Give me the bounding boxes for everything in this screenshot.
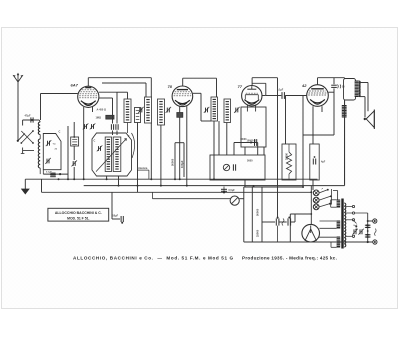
svg-text:77: 77 [238,84,243,89]
svg-text:8μF: 8μF [354,225,359,227]
svg-text:6A7: 6A7 [71,83,79,88]
svg-text:Antenna: Antenna [137,166,148,170]
svg-text:78: 78 [168,84,173,89]
svg-text:20000: 20000 [285,152,288,160]
svg-text:0,1μF: 0,1μF [277,89,284,92]
svg-text:Produzione 1935. - Media freq.: Produzione 1935. - Media freq.: 425 kc. [242,256,337,261]
svg-text:1MΩ: 1MΩ [96,117,101,120]
svg-text:4μF: 4μF [321,161,326,164]
svg-text:50μF: 50μF [113,215,119,218]
svg-text:ALLOCCHIO, BACCHINI e Co. —: ALLOCCHIO, BACCHINI e Co. — Mod. 51 F.M.… [73,255,234,260]
svg-text:47μF: 47μF [25,114,31,118]
svg-text:0,5μF: 0,5μF [229,189,236,192]
svg-text:MOD. 51 F 51.: MOD. 51 F 51. [67,216,89,220]
svg-text:25000: 25000 [256,229,260,237]
svg-text:50000: 50000 [256,208,260,216]
svg-text:C: C [59,130,61,134]
svg-text:0,1μF: 0,1μF [46,172,52,174]
svg-text:C: C [94,140,96,143]
svg-text:A-450 Ω: A-450 Ω [97,109,107,112]
svg-text:42: 42 [301,83,307,88]
svg-text:100μF: 100μF [180,160,184,168]
svg-text:50000: 50000 [171,158,175,166]
svg-text:Tm: Tm [53,144,56,146]
svg-text:10000: 10000 [240,139,247,141]
svg-text:ALLOCCHIO BACCHINI & C.: ALLOCCHIO BACCHINI & C. [55,211,102,215]
svg-text:C: C [128,135,130,138]
svg-text:5000: 5000 [247,160,253,163]
